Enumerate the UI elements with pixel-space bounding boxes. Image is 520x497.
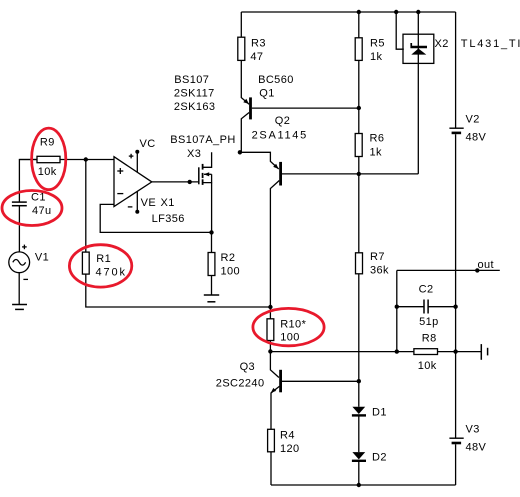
svg-text:1k: 1k [370,147,383,159]
svg-text:100: 100 [221,266,241,278]
wire op-amp output to X3 gate [152,181,199,183]
wire Q2 collector [270,181,279,308]
svg-text:R10*: R10* [280,319,306,331]
svg-text:out: out [478,259,495,271]
VE minus marker [128,206,133,208]
wire X2 cathode-anode vertical [417,12,419,174]
svg-text:R9: R9 [40,137,55,149]
wire R1 top lead [85,160,87,253]
wire out [397,269,500,271]
junction R8/V2-V3 column [453,349,457,353]
svg-text:D2: D2 [372,452,387,464]
svg-text:V2: V2 [466,114,480,126]
svg-text:X1: X1 [161,197,175,209]
junction Q3 base/D1 [357,379,361,383]
svg-text:2SA1145: 2SA1145 [252,130,308,142]
mosfet X3 drain lead [203,152,212,167]
svg-text:LF356: LF356 [152,213,185,225]
X2 cathode bar [410,43,427,48]
wire C1 to V1 [18,206,20,252]
transistor Q2 emitter arrow [273,164,279,169]
junction C2 branch / R8 [395,349,399,353]
wire R4 bottom lead [270,452,272,485]
svg-text:2SC2240: 2SC2240 [216,378,265,390]
op-amp -input marker [117,193,123,195]
svg-text:X2: X2 [435,38,449,50]
junction top rail / X2 cathode [416,10,420,14]
annotation red ellipse around R9 [32,128,66,190]
svg-text:BS107: BS107 [174,74,209,86]
svg-text:R7: R7 [370,251,385,263]
wire Q2 base to R6 junction [282,173,359,175]
svg-text:R4: R4 [280,430,295,442]
resistor R5 [355,38,362,61]
wire X2 anode to R6 junction [359,173,419,175]
op-amp X1 triangle [114,157,152,207]
mosfet X3 channel segments [202,164,204,185]
wire R2 to ground [211,276,213,296]
svg-text:Q1: Q1 [259,88,274,100]
transistor Q3 emitter wire [271,386,280,429]
op-amp X1 feedback wire [100,204,211,232]
svg-text:1k: 1k [370,51,383,63]
junction Q1/X3/Q2 node [238,150,242,154]
wire R6 top lead [358,108,360,134]
junction feedback/R2 [209,230,213,234]
mosfet X3 source lead [203,174,212,182]
svg-text:47: 47 [250,51,263,63]
V1 minus marker [23,278,28,280]
svg-text:TL431_TI: TL431_TI [461,38,520,50]
label BS107 2SK117 2SK163 [174,74,216,113]
wire V3 top lead [455,352,457,439]
ground V1 [12,305,27,310]
op-amp +input marker [117,168,123,174]
wire V2 bottom lead [455,134,457,351]
wire R3 to Q1 emitter [241,60,249,104]
annotation red ellipse around R1 [69,245,131,287]
svg-text:R5: R5 [370,38,385,50]
op-amp X1 +input wire [19,159,114,161]
svg-text:VE: VE [141,197,156,209]
svg-text:51p: 51p [419,316,439,328]
svg-text:2SK117: 2SK117 [174,88,215,100]
ground R2 [204,295,219,302]
svg-text:10k: 10k [38,166,57,178]
wire X3 source down to feedback node [211,183,213,233]
wire V1 to ground [18,273,20,305]
svg-text:100: 100 [280,332,300,344]
transistor Q1 BC560 emitter arrow [243,99,249,104]
capacitor C1 [12,202,27,206]
annotation red ellipse around R10 [253,308,324,345]
wire V2 top lead [455,12,457,128]
diode D1 [352,407,366,417]
junction R10/Q3/R8 net [268,349,272,353]
resistor R6 [355,134,362,157]
wire Q1 collector [241,113,249,153]
resistor R3 [238,37,245,60]
junction top rail / X2 ref [394,10,398,14]
ground right of R8 [481,344,487,360]
svg-text:X3: X3 [187,148,201,160]
wire node to Q2 emitter [240,152,279,169]
wire C2 left lead [397,306,424,308]
mosfet X3 body arrow [204,172,212,176]
resistor R8 [414,349,438,355]
wire R7 top lead [358,174,360,253]
battery V2 [449,128,463,134]
svg-text:2SK163: 2SK163 [174,101,216,113]
op-amp VC pin [135,150,139,173]
svg-text:R6: R6 [370,133,385,145]
transistor Q3 collector wire [270,352,279,378]
wire R5 bottom lead [358,60,360,108]
wire out branch vertical [396,270,398,351]
svg-text:48V: 48V [466,131,487,143]
resistor R10 [267,319,274,341]
svg-text:47u: 47u [32,205,52,217]
transistor Q2 base bar [279,162,282,186]
wire R1 bottom to Q2 collector node [86,274,271,307]
wire Q1 base to R5/R6 junction [252,107,359,109]
junction R1/Q2/R10 [268,305,272,309]
wire X2 ref branch [396,12,404,49]
svg-text:V3: V3 [466,424,480,436]
annotation red ellipse around C1 [2,191,62,226]
junction D2/bottom rail [357,483,361,487]
junction X3 gate pin [188,180,192,184]
resistor R2 [208,253,215,276]
junction R6/Q2 base/X2 anode [357,172,361,176]
svg-text:36k: 36k [370,264,389,276]
mosfet X3 gate bar [198,167,200,184]
resistor R1 [82,252,89,274]
Q3 emitter arrow [271,388,277,393]
wire C2 right lead [428,306,456,308]
wire R10 node to R8 [270,351,414,353]
wire top rail [241,11,455,13]
wire R5 top lead [358,12,360,38]
svg-text:R1: R1 [96,253,111,265]
svg-text:BC560: BC560 [258,74,294,86]
svg-text:R8: R8 [422,332,437,344]
wire R10 top lead [269,307,271,319]
svg-text:D1: D1 [372,407,387,419]
svg-text:VC: VC [140,138,156,150]
resistor R7 [356,253,363,274]
source V1 circle [9,252,30,273]
wire top rail down to R3 [240,12,242,37]
junction C2 left [395,305,399,309]
wire R10 bottom lead [269,341,271,352]
node out [475,268,479,272]
wire R7 bottom to D1 [358,274,360,407]
svg-text:BS107A_PH: BS107A_PH [170,134,235,146]
junction R5/R6/Q1 [357,106,361,110]
wire bottom rail [271,484,456,486]
VC plus marker [129,154,134,159]
battery V3 [449,438,463,444]
V1 plus marker [22,245,27,250]
wire R9 left to C1 [19,160,37,202]
transistor Q1 BC560 base bar [249,97,252,119]
wire R8 right to ground [438,351,482,353]
shunt regulator X2 box [403,34,434,63]
junction C2 right [453,305,457,309]
svg-text:Q2: Q2 [275,115,290,127]
diode D2 [352,452,366,462]
junction R9/R1 [84,157,88,161]
svg-text:Q3: Q3 [240,361,255,373]
wire D1 to D2 [358,417,360,453]
capacitor C2 [424,300,428,314]
op-amp VE pin [135,191,139,214]
V1 sine symbol [13,260,26,266]
svg-text:R2: R2 [221,252,236,264]
resistor R4 [268,429,275,452]
svg-text:R3: R3 [251,38,266,50]
junction top rail / R5 [357,10,361,14]
svg-text:48V: 48V [466,441,487,453]
svg-text:10k: 10k [418,360,437,372]
svg-text:V1: V1 [35,251,49,263]
wire R6 bottom lead [358,157,360,174]
svg-text:120: 120 [280,443,300,455]
svg-text:C2: C2 [419,284,434,296]
wire D2 to bottom rail [358,462,360,485]
transistor Q3 base bar [279,370,282,393]
wire Q3 base to D1 junction [282,380,359,382]
X2 anode triangle [411,49,426,55]
resistor R9 [37,156,60,162]
svg-text:470k: 470k [96,266,127,278]
wire V3 bottom lead [455,444,457,485]
wire R2 top lead [211,232,213,252]
